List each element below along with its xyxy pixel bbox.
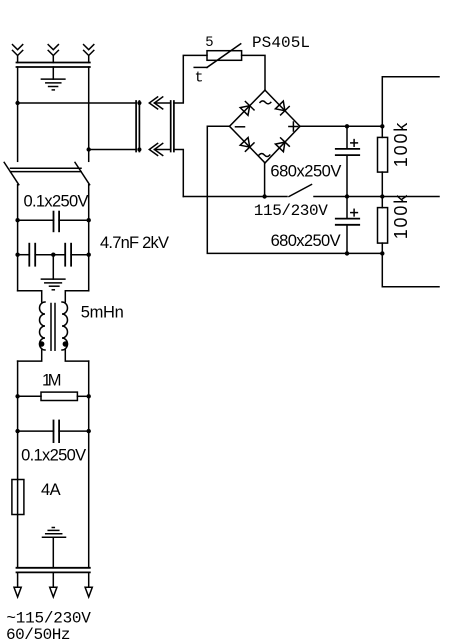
fuse F1 element line	[17, 480, 19, 515]
switch SW1a blade	[4, 162, 19, 184]
junction	[345, 194, 349, 198]
bridge minus mark	[236, 126, 245, 128]
switch SW1b blade	[75, 162, 90, 184]
connector X1 left double bar	[136, 101, 139, 152]
capacitor C3 (Y cap right) plates	[65, 244, 71, 266]
wire bridge minus to bottom rail	[207, 126, 382, 253]
svg-text:0.1x250V: 0.1x250V	[24, 192, 89, 210]
wire choke bottom jog	[18, 350, 89, 361]
svg-text:100k: 100k	[391, 122, 411, 168]
wire AC node horizontal to switch SW2	[183, 196, 287, 198]
svg-text:5mHn: 5mHn	[81, 303, 124, 321]
diode D1 (left to top edge)	[240, 102, 254, 116]
junction	[15, 253, 19, 257]
wire bridge plus to top rail	[300, 125, 382, 127]
wire Y-cap center	[35, 254, 65, 256]
junction	[262, 194, 266, 198]
thermistor RT1 body	[207, 51, 242, 61]
junction	[137, 101, 141, 105]
connector J2 pin arrow middle	[50, 587, 57, 597]
wire left rail to fuse	[17, 431, 19, 568]
wire plus output corner	[382, 77, 439, 127]
junction	[345, 124, 349, 128]
connector X1 bottom pin chevrons	[149, 143, 170, 155]
capacitor C5 plates	[336, 149, 359, 155]
junction	[380, 124, 384, 128]
junction	[87, 218, 91, 222]
wire right rail to bottom connector	[88, 431, 90, 568]
capacitor C3 lead	[71, 254, 89, 256]
wire bridge bottom to AC junction	[264, 163, 266, 197]
svg-text:~115/230V: ~115/230V	[6, 609, 91, 627]
inductor core	[51, 304, 55, 351]
junction	[15, 429, 19, 433]
resistor R1 body	[378, 137, 388, 172]
capacitor C2 plates	[29, 244, 35, 266]
phase dot left	[39, 341, 45, 347]
junction	[87, 253, 91, 257]
diode D2 (top to right edge)	[275, 101, 289, 115]
capacitor C6 bottom lead	[346, 226, 348, 254]
junction	[345, 251, 349, 255]
ground (earth below inlet)	[41, 67, 65, 90]
junction	[380, 194, 384, 198]
svg-text:PS405L: PS405L	[252, 34, 310, 52]
connector J1 mains-inlet pin N chevrons	[84, 45, 94, 63]
wire minus output corner	[382, 253, 439, 286]
resistor R2 leads	[381, 197, 383, 254]
wire choke top jog	[18, 291, 89, 302]
capacitor C5 bottom lead	[346, 156, 348, 197]
wire connector X1 bottom to AC node	[174, 150, 183, 197]
wire left rail from inlet to switch	[17, 67, 19, 161]
resistor R2 body	[378, 208, 388, 244]
resistor R3 leads	[18, 395, 89, 397]
diode D3 (left to bottom edge)	[240, 138, 254, 152]
svg-text:1M: 1M	[42, 372, 62, 390]
fuse F1 body	[12, 480, 24, 515]
capacitor C6 top lead	[346, 197, 348, 218]
svg-text:0.1x250V: 0.1x250V	[21, 446, 86, 464]
capacitor C6 plus mark	[351, 209, 358, 216]
capacitor C5 top lead	[346, 126, 348, 148]
svg-text:4.7nF 2kV: 4.7nF 2kV	[100, 234, 169, 252]
junction	[87, 147, 91, 151]
connector J2 pin arrow right	[85, 587, 92, 597]
svg-text:680x250V: 680x250V	[270, 162, 341, 180]
junction	[87, 429, 91, 433]
ground (earth below Y caps)	[41, 255, 65, 290]
capacitor C1 (X cap) leads	[18, 219, 89, 221]
svg-text:115/230V: 115/230V	[254, 202, 328, 220]
bridge rectifier B1 diamond edges	[230, 90, 301, 163]
wire left rail switch to X-cap	[17, 185, 19, 221]
capacitor C6 plates	[336, 219, 359, 225]
junction	[15, 101, 19, 105]
svg-text:680x250V: 680x250V	[271, 232, 341, 250]
connector J1 mains-inlet pin E chevrons	[48, 45, 58, 63]
switch SW1 linkage	[11, 168, 82, 171]
junction	[137, 147, 141, 151]
wire rails Y-caps to choke	[18, 255, 89, 291]
diode D4 (bottom to right edge)	[275, 138, 289, 152]
connector J2 pin arrow left	[14, 587, 21, 597]
connector J1 mains-inlet pin L chevrons	[13, 45, 23, 63]
connector J2 pin stubs	[18, 572, 89, 587]
wire right rail from inlet to switch	[88, 67, 90, 161]
wire switch SW2 to capacitor midpoint	[314, 196, 439, 198]
wire right rail switch to X-cap	[88, 185, 90, 221]
resistor R3 body	[41, 392, 77, 400]
switch SW2 blade (115/230V selector)	[289, 185, 312, 197]
junction	[15, 394, 19, 398]
connector J1 body (double bar)	[17, 63, 90, 68]
inductor L1a (choke left winding)	[40, 302, 46, 350]
capacitor C4 (X cap) leads	[18, 430, 89, 432]
wire node N to connector X1	[89, 149, 136, 151]
capacitor C4 plates	[54, 421, 60, 443]
svg-text:5: 5	[206, 33, 214, 49]
connector X1 top pin chevrons	[149, 97, 170, 109]
wire rails choke to 1M row	[18, 361, 89, 396]
bridge plus mark	[289, 122, 298, 131]
junction	[51, 253, 55, 257]
wire thermistor to bridge top	[242, 55, 265, 90]
junction	[15, 218, 19, 222]
svg-text:60/50Hz: 60/50Hz	[6, 626, 71, 642]
svg-text:t: t	[195, 70, 204, 87]
junction	[87, 394, 91, 398]
resistor R1 leads	[381, 126, 383, 196]
bridge AC mark bottom (~)	[259, 154, 270, 157]
inductor L1b (choke right winding)	[62, 302, 68, 350]
connector J2 body (double bar bottom)	[17, 568, 90, 573]
wire rails X-cap to Y-caps	[18, 220, 89, 255]
svg-text:4A: 4A	[41, 481, 61, 499]
svg-text:100k: 100k	[391, 194, 411, 240]
capacitor C2 (Y cap left) leads	[18, 254, 30, 256]
capacitor C5 plus mark	[351, 140, 358, 147]
phase dot right	[63, 341, 69, 347]
connector X1 right double bar	[171, 101, 174, 152]
wire connector X1 top to thermistor	[174, 55, 207, 103]
junction	[380, 251, 384, 255]
bridge AC mark top (~)	[260, 101, 271, 104]
wire node L to connector X1	[18, 102, 137, 104]
wire rails 1M to X-cap2	[18, 396, 89, 431]
ground (inverted earth above bottom connector)	[43, 528, 66, 568]
thermistor RT1 diagonal with t-foot	[194, 44, 241, 68]
capacitor C1 plates	[54, 212, 60, 232]
